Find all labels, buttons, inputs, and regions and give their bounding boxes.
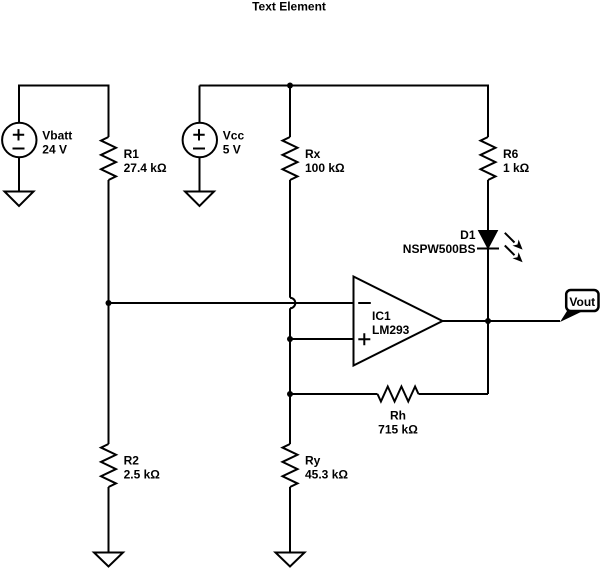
wire output node down to feedback — [487, 321, 489, 394]
Vout flag — [566, 290, 598, 311]
svg-text:24 V: 24 V — [42, 143, 67, 157]
svg-text:IC1: IC1 — [372, 309, 391, 323]
svg-text:45.3 kΩ: 45.3 kΩ — [305, 468, 348, 482]
ground below Vcc — [185, 192, 214, 207]
junction top rail to Rx — [287, 83, 293, 89]
junction output node — [485, 318, 491, 324]
svg-text:1 kΩ: 1 kΩ — [503, 161, 530, 175]
resistor Rx — [283, 137, 346, 180]
svg-text:27.4 kΩ: 27.4 kΩ — [124, 161, 167, 175]
svg-text:5 V: 5 V — [223, 143, 241, 157]
op-amp IC1 — [354, 277, 443, 366]
ground below Ry — [276, 553, 305, 567]
LED D1 — [403, 228, 499, 256]
ground below R2 — [94, 553, 123, 567]
wire R2 branch from node A — [108, 303, 110, 444]
wire plus node to feedback node — [289, 339, 291, 394]
svg-text:R1: R1 — [124, 147, 140, 161]
wire Vcc to R6 top rail — [200, 86, 489, 138]
resistor Rh — [378, 387, 419, 437]
wire plus input — [290, 338, 354, 340]
wire feedback right segment — [419, 393, 489, 395]
ground below Vbatt — [5, 192, 34, 207]
svg-text:Ry: Ry — [305, 454, 321, 468]
wire LED to output node — [487, 249, 489, 322]
svg-text:Rh: Rh — [390, 409, 406, 423]
svg-text:LM293: LM293 — [372, 323, 410, 337]
svg-text:715 kΩ: 715 kΩ — [378, 423, 418, 437]
wire Vbatt top to R1 — [19, 86, 109, 138]
voltage source Vcc — [183, 123, 245, 157]
junction plus input node — [287, 336, 293, 342]
svg-text:R2: R2 — [124, 454, 140, 468]
resistor R2 — [101, 444, 160, 487]
Vout flag pointer — [560, 311, 583, 322]
svg-text:2.5 kΩ: 2.5 kΩ — [124, 468, 161, 482]
LED arrow 1 — [505, 233, 523, 250]
wire hop over minus wire — [290, 298, 295, 309]
svg-text:Vbatt: Vbatt — [42, 129, 72, 143]
svg-text:NSPW500BS: NSPW500BS — [403, 242, 476, 256]
resistor R1 — [101, 137, 167, 180]
svg-text:Text Element: Text Element — [252, 0, 326, 14]
svg-text:Vout: Vout — [569, 295, 595, 309]
wire R6 bottom to LED — [487, 180, 489, 231]
svg-text:Rx: Rx — [305, 147, 321, 161]
svg-text:D1: D1 — [460, 228, 476, 242]
junction feedback node — [287, 391, 293, 397]
wire top rail to Rx — [289, 86, 291, 138]
wire R2 bottom lead — [108, 487, 110, 553]
wire minus input from node A — [109, 302, 354, 304]
wire hop to plus node — [289, 308, 291, 339]
svg-text:100 kΩ: 100 kΩ — [305, 161, 345, 175]
wire Vcc bottom lead — [199, 158, 201, 192]
wire op-amp output — [443, 320, 561, 322]
wire feedback left segment — [290, 393, 378, 395]
wire Vbatt bottom lead — [18, 158, 20, 192]
wire feedback node to Ry — [289, 394, 291, 444]
voltage source Vbatt — [2, 123, 72, 157]
wire R1 bottom to node A — [108, 180, 110, 303]
svg-text:R6: R6 — [503, 147, 519, 161]
wire Ry bottom lead — [289, 487, 291, 553]
title Text Element — [252, 0, 326, 14]
svg-text:Vcc: Vcc — [223, 129, 245, 143]
resistor R6 — [481, 137, 530, 180]
junction node A on R1 branch — [106, 300, 112, 306]
wire Vcc top lead — [199, 86, 201, 123]
resistor Ry — [283, 444, 349, 487]
wire Rx bottom to hop — [289, 180, 291, 298]
LED arrow 2 — [505, 246, 523, 263]
